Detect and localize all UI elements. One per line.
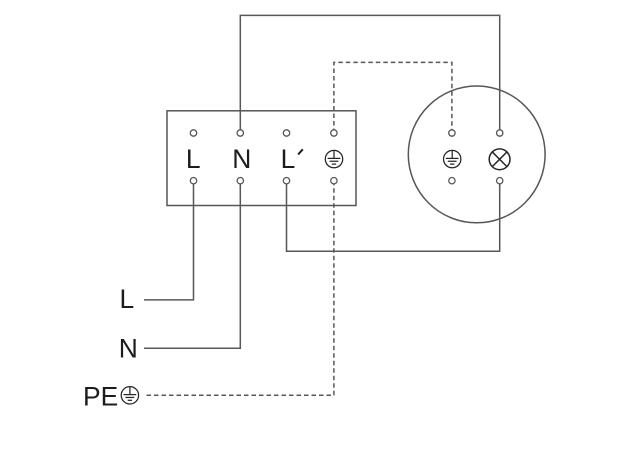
svg-text:N: N: [232, 144, 251, 174]
svg-text:L: L: [186, 144, 201, 174]
svg-text:PE: PE: [83, 381, 118, 411]
svg-text:L: L: [120, 284, 135, 314]
svg-text:L: L: [281, 144, 296, 174]
svg-text:N: N: [119, 333, 138, 363]
